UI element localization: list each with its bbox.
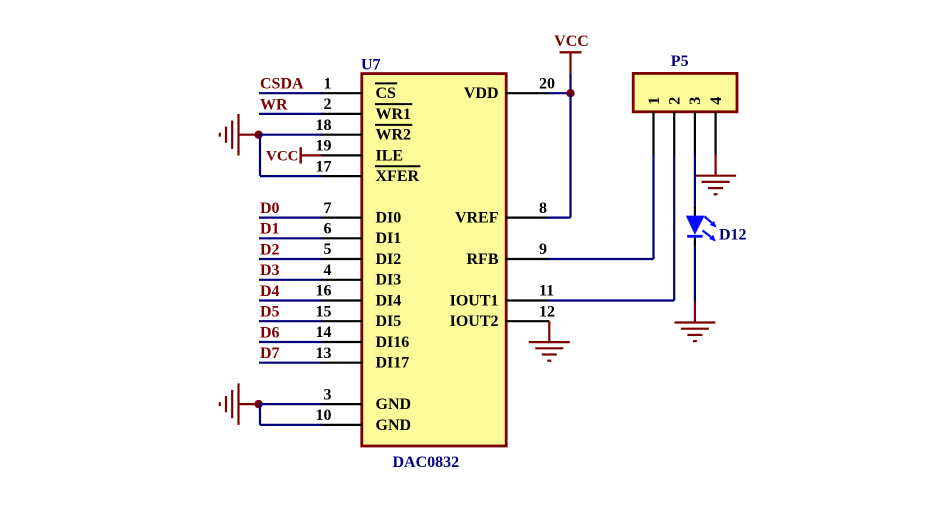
svg-text:WR: WR	[260, 96, 288, 113]
svg-text:DI0: DI0	[376, 210, 402, 227]
svg-text:DI3: DI3	[376, 272, 402, 289]
junction dot at VDD/VCC	[566, 89, 574, 97]
wire net D1 to pin	[259, 237, 322, 239]
svg-text:D6: D6	[260, 324, 280, 341]
wire P5 pin1 down to RFB pin 9	[548, 155, 654, 260]
svg-text:19: 19	[316, 138, 332, 155]
svg-text:GND: GND	[376, 396, 412, 413]
net label D0	[260, 200, 280, 217]
wire net D5 to pin	[259, 320, 322, 322]
wire net D6 to pin	[259, 341, 322, 343]
wire net D0 to pin	[259, 217, 322, 219]
pin 12 (IOUT2) of U7, right side	[450, 303, 555, 330]
pin 19 (ILE) of U7, left side	[316, 138, 404, 165]
pin 16 (DI4) of U7, left side	[316, 283, 402, 310]
wire VCC stem to VDD junction	[569, 73, 571, 93]
wire net WR to pin	[259, 113, 322, 115]
ground symbol under IOUT2	[529, 342, 570, 361]
net label WR	[260, 96, 288, 113]
svg-text:P5: P5	[671, 53, 689, 70]
pin 2 (WR1) of U7, left side	[321, 96, 413, 123]
svg-text:2: 2	[324, 96, 332, 113]
svg-text:D7: D7	[260, 345, 280, 362]
svg-text:16: 16	[316, 283, 332, 300]
svg-text:DI2: DI2	[376, 251, 402, 268]
svg-text:6: 6	[324, 221, 332, 238]
wire P5 pin3 down to LED anode	[694, 155, 696, 206]
svg-text:VREF: VREF	[455, 210, 499, 227]
wire net D2 to pin	[259, 258, 322, 260]
svg-text:ILE: ILE	[376, 147, 404, 164]
svg-text:18: 18	[316, 117, 332, 134]
svg-text:WR1: WR1	[376, 106, 412, 123]
wire net D3 to pin	[259, 279, 322, 281]
svg-text:9: 9	[539, 241, 547, 258]
svg-text:D4: D4	[260, 283, 280, 300]
svg-text:D0: D0	[260, 200, 280, 217]
wire junction to WR2 pin 18	[259, 134, 322, 136]
svg-text:U7: U7	[361, 57, 381, 74]
wire ground down to GND pin 10	[260, 404, 322, 425]
svg-text:20: 20	[539, 75, 555, 92]
svg-text:GND: GND	[376, 417, 412, 434]
pin 5 (DI2) of U7, left side	[321, 241, 402, 268]
svg-text:12: 12	[539, 303, 555, 320]
svg-text:RFB: RFB	[467, 251, 499, 268]
svg-text:VDD: VDD	[464, 85, 499, 102]
pin 7 (DI0) of U7, left side	[321, 200, 402, 227]
value label DAC0832	[393, 454, 460, 471]
wire ground to GND pin 3	[259, 403, 322, 405]
svg-text:1: 1	[324, 75, 332, 92]
svg-text:4: 4	[324, 262, 332, 279]
svg-text:VCC: VCC	[554, 33, 589, 50]
IC U7 body (DAC0832)	[362, 74, 506, 446]
pin 3 (GND) of U7, left side	[321, 386, 412, 413]
svg-text:2: 2	[667, 97, 684, 105]
wire P5 pin2 down to IOUT1 pin 11	[548, 155, 675, 301]
svg-text:D2: D2	[260, 241, 280, 258]
power port VCC at VDD net (top)	[554, 33, 589, 73]
svg-text:8: 8	[539, 200, 547, 217]
wire LED cathode down to ground	[694, 247, 696, 323]
designator D12	[719, 227, 747, 244]
net label D2	[260, 241, 280, 258]
net label D6	[260, 324, 280, 341]
ground symbol at GND pins (bottom left)	[220, 383, 256, 425]
net label D3	[260, 262, 280, 279]
svg-text:11: 11	[539, 283, 554, 300]
junction dot at GND net	[254, 400, 262, 408]
svg-text:D3: D3	[260, 262, 280, 279]
svg-text:DI16: DI16	[376, 334, 410, 351]
pin 1 (CS) of U7, left side	[321, 75, 398, 102]
wire net CSDA to pin	[259, 92, 322, 94]
pin 10 (GND) of U7, left side	[316, 407, 412, 434]
wire VCC net down to VREF pin 8	[548, 93, 571, 217]
wire pin20 to VCC net	[548, 92, 571, 94]
svg-text:3: 3	[324, 386, 332, 403]
svg-text:D12: D12	[719, 227, 747, 244]
svg-text:WR2: WR2	[376, 127, 412, 144]
designator P5	[671, 53, 689, 70]
svg-text:DI1: DI1	[376, 230, 402, 247]
junction dot at WR2 net	[254, 131, 262, 139]
ground symbol under P5 pin 4	[695, 176, 736, 195]
pin 20 (VDD) of U7, right side	[464, 75, 555, 102]
svg-text:DI5: DI5	[376, 313, 402, 330]
pin 17 (XFER) of U7, left side	[316, 158, 421, 185]
wire P5 pin4 to ground	[714, 155, 716, 176]
pin 13 (DI17) of U7, left side	[316, 345, 410, 372]
wire net D4 to pin	[259, 299, 322, 301]
pin 11 (IOUT1) of U7, right side	[450, 283, 555, 310]
wire IOUT2 pin 12 to ground	[548, 321, 550, 342]
pin 4 (DI3) of U7, left side	[321, 262, 402, 289]
svg-text:17: 17	[316, 158, 332, 175]
wire net D7 to pin	[259, 362, 322, 364]
svg-text:CS: CS	[376, 85, 397, 102]
svg-text:13: 13	[316, 345, 332, 362]
net label D5	[260, 304, 280, 321]
svg-text:DI4: DI4	[376, 292, 402, 309]
svg-text:IOUT2: IOUT2	[450, 313, 499, 330]
pin 6 (DI1) of U7, left side	[321, 221, 402, 248]
net label D1	[260, 221, 280, 238]
svg-text:D5: D5	[260, 304, 280, 321]
power port VCC at ILE pin 19	[266, 147, 322, 164]
designator U7	[361, 57, 381, 74]
svg-text:7: 7	[324, 200, 332, 217]
net label D7	[260, 345, 280, 362]
wire ground junction down to XFER pin	[260, 135, 322, 176]
svg-text:15: 15	[316, 303, 332, 320]
svg-text:DAC0832: DAC0832	[393, 454, 460, 471]
ground symbol at WR2/XFER net (top left)	[220, 114, 256, 156]
svg-text:10: 10	[316, 407, 332, 424]
svg-text:CSDA: CSDA	[260, 76, 304, 93]
svg-text:14: 14	[316, 324, 332, 341]
pin 15 (DI5) of U7, left side	[316, 303, 402, 330]
pin 4 of P5	[708, 97, 725, 155]
LED D12	[686, 205, 717, 247]
pin 1 of P5	[646, 97, 663, 155]
svg-text:5: 5	[324, 241, 332, 258]
svg-text:4: 4	[708, 97, 725, 105]
svg-text:D1: D1	[260, 221, 280, 238]
svg-text:IOUT1: IOUT1	[450, 292, 499, 309]
pin 18 (WR2) of U7, left side	[316, 117, 413, 144]
net label CSDA	[260, 76, 304, 93]
connector P5 body	[633, 73, 737, 111]
svg-text:XFER: XFER	[376, 168, 420, 185]
ground symbol under LED D12	[674, 323, 715, 342]
net label D4	[260, 283, 280, 300]
pin 8 (VREF) of U7, right side	[455, 200, 549, 227]
svg-text:1: 1	[646, 97, 663, 105]
pin 3 of P5	[687, 97, 704, 155]
pin 14 (DI16) of U7, left side	[316, 324, 410, 351]
pin 9 (RFB) of U7, right side	[467, 241, 549, 268]
svg-text:VCC: VCC	[266, 148, 299, 164]
svg-text:3: 3	[687, 97, 704, 105]
pin 2 of P5	[667, 97, 684, 155]
svg-text:DI17: DI17	[376, 355, 410, 372]
